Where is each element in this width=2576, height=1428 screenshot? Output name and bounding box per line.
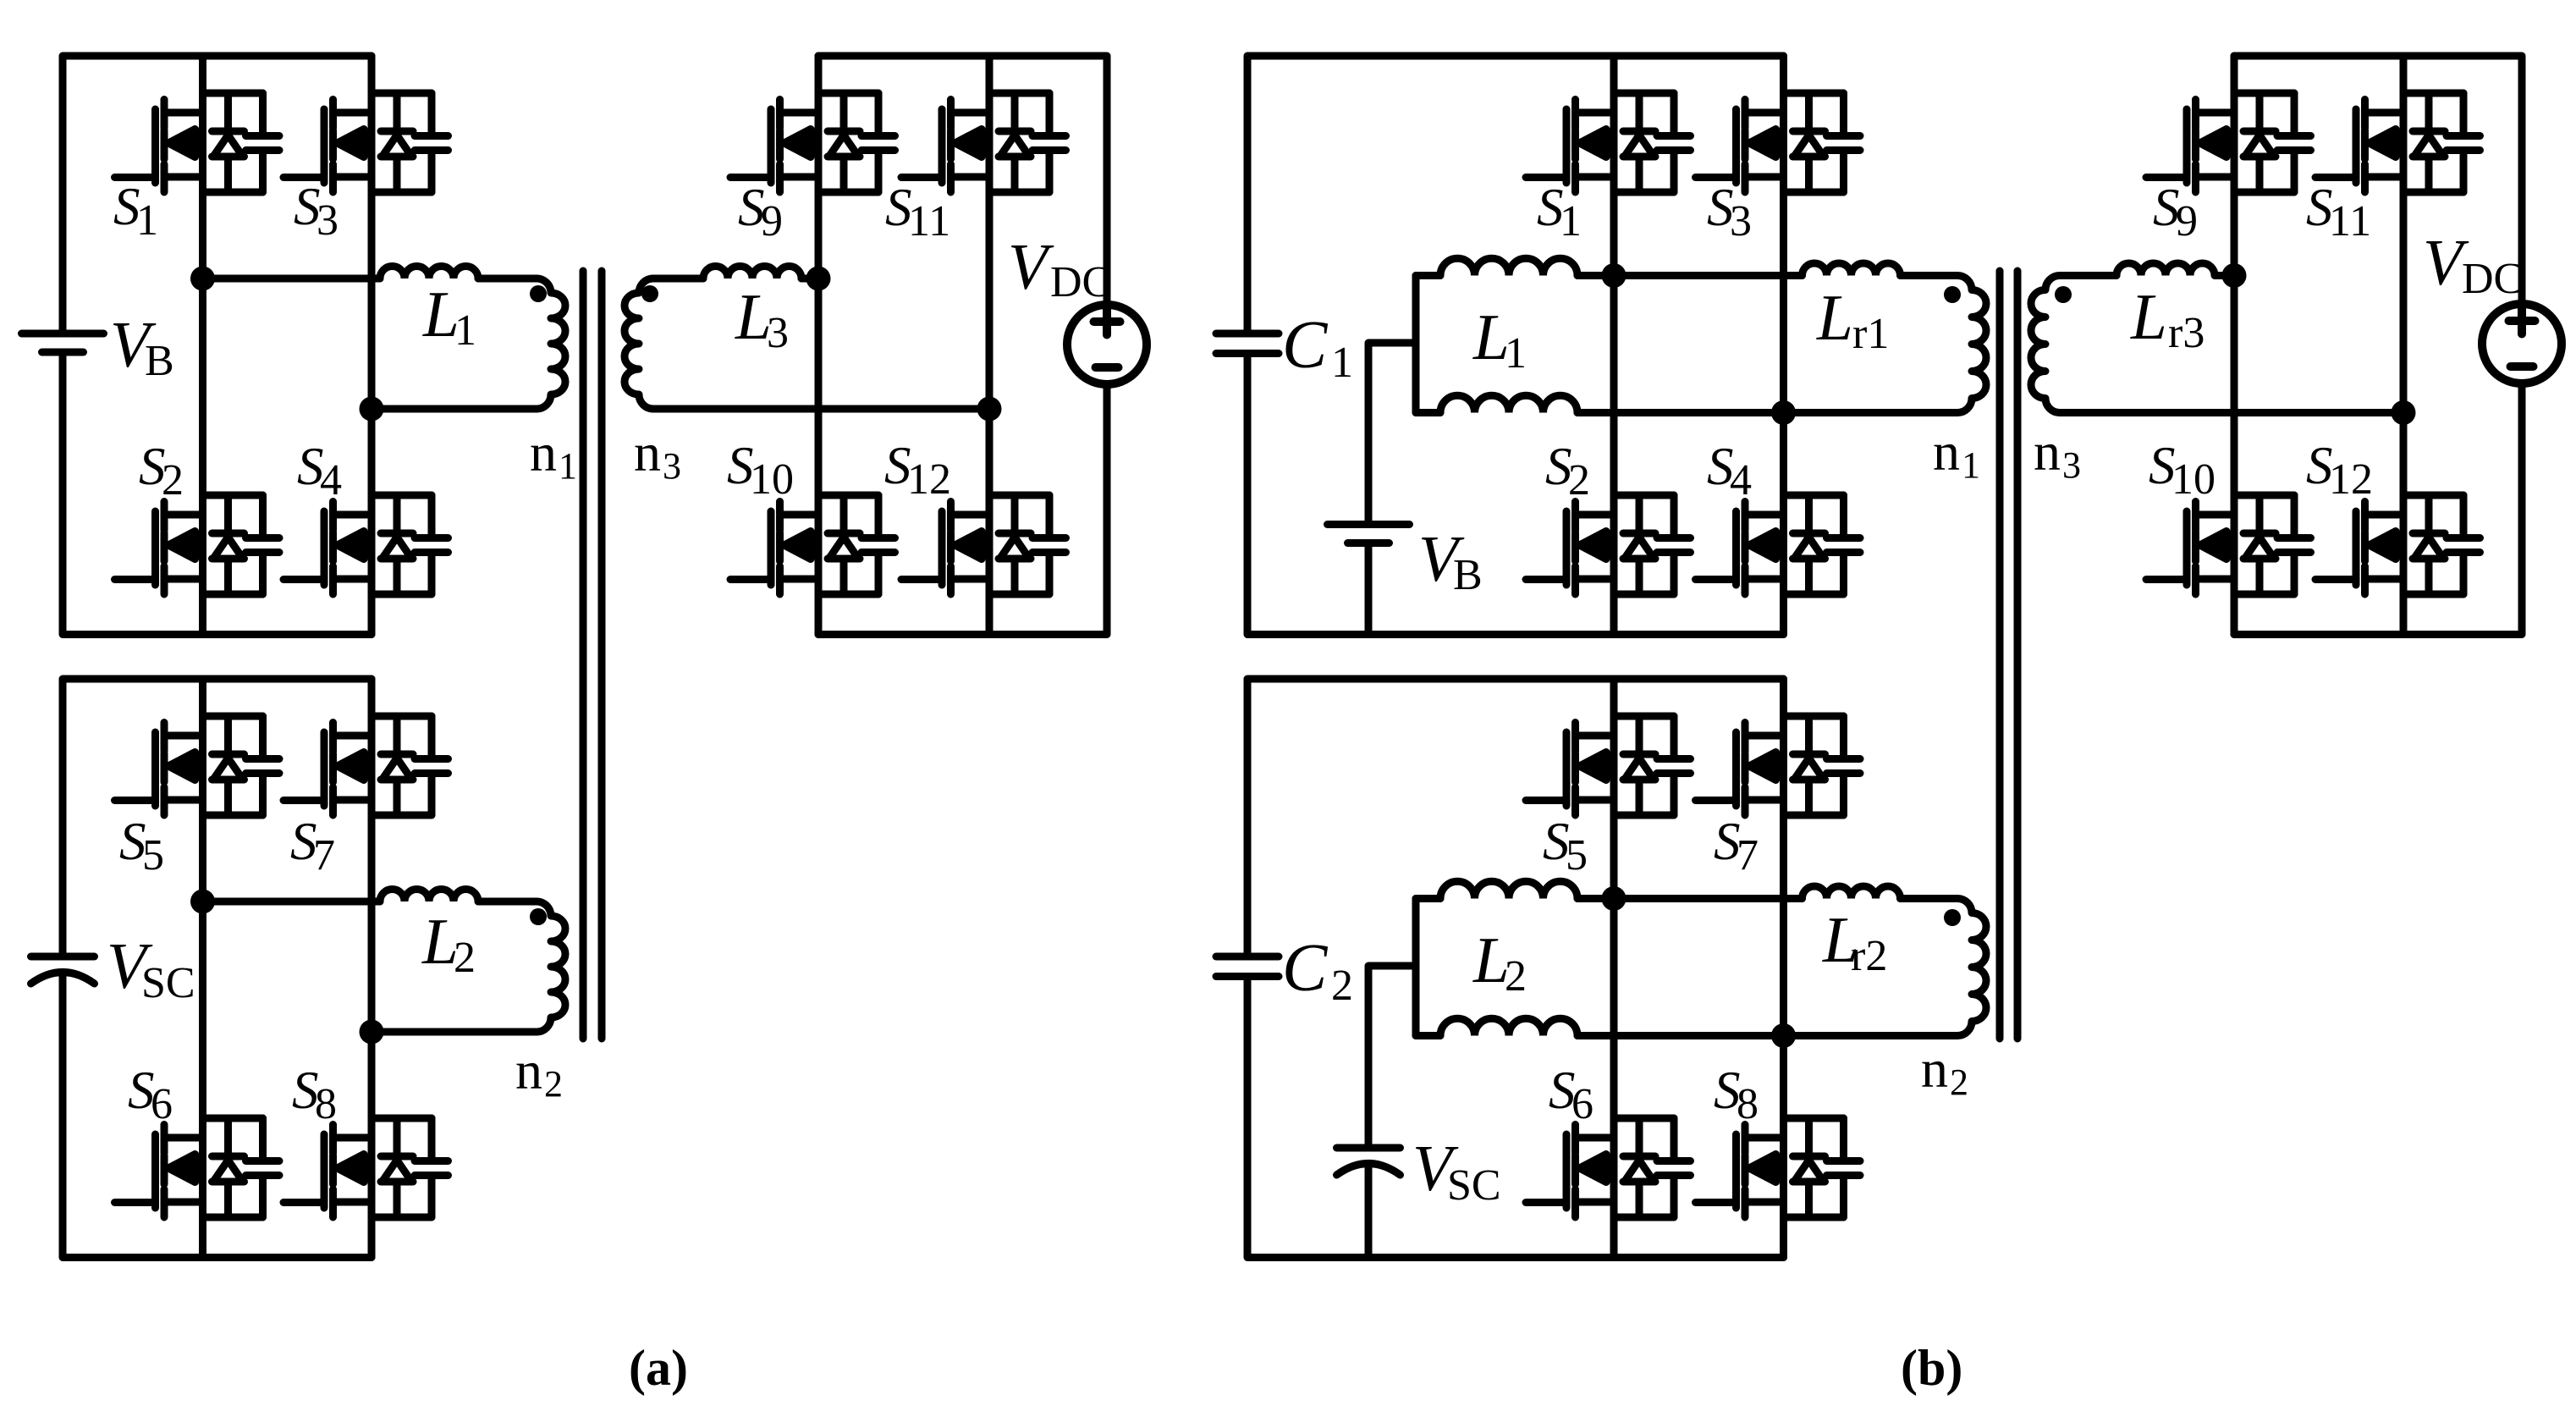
svg-text:SC: SC	[1447, 1161, 1501, 1210]
transformer winding n3	[625, 278, 653, 409]
wire: VB positive lead to L1 loop	[1368, 343, 1416, 521]
svg-text:6: 6	[151, 1080, 173, 1128]
battery VB	[22, 334, 104, 352]
wire: Lr3 to bridge B3 leg1 midpoint	[2215, 272, 2235, 279]
svg-text:9: 9	[2176, 197, 2198, 245]
svg-text:2: 2	[162, 456, 184, 504]
transformer winding n2	[537, 901, 565, 1032]
polarity dot of winding n1	[530, 285, 547, 302]
wire: bridge B1 top rail and C1 top lead	[1247, 56, 1784, 330]
wire: bridge A2 leg2 (S7/S8)	[368, 679, 376, 1258]
svg-text:3: 3	[767, 309, 789, 357]
inductor L2 of (b) bottom branch	[1440, 1018, 1577, 1035]
svg-text:11: 11	[2329, 197, 2371, 245]
polarity dot of winding n2 of (b)	[1944, 909, 1961, 926]
polarity dot of winding n1 of (b)	[1944, 286, 1961, 303]
inductor L1 of (b) bottom branch	[1440, 395, 1577, 412]
svg-text:B: B	[1453, 551, 1483, 599]
svg-text:n: n	[2034, 422, 2061, 482]
polarity dot of winding n2	[530, 908, 547, 925]
svg-text:n: n	[634, 422, 661, 482]
junction: bridge B2 leg1 midpoint node	[1602, 886, 1627, 911]
svg-text:B: B	[145, 337, 174, 385]
switch S2 of (b) (MOSFET with body diode and snubber capacitor)	[1526, 495, 1691, 594]
junction: bridge B1 leg2 midpoint node	[1771, 400, 1796, 425]
svg-text:6: 6	[1571, 1080, 1593, 1128]
wire: bridge B3 leg2 (S11/S12)	[2400, 56, 2408, 635]
svg-text:10: 10	[2171, 455, 2215, 504]
switch S8 of (b) (MOSFET with body diode and snubber capacitor)	[1696, 1118, 1861, 1217]
switch S11 (MOSFET with body diode and snubber capacitor)	[901, 93, 1066, 192]
svg-text:n: n	[530, 422, 557, 482]
wire: L2 to winding n2	[478, 898, 537, 906]
svg-text:DC: DC	[2462, 255, 2523, 303]
wire: L1 to winding n1	[478, 275, 537, 283]
wire: bridge A2 top rail and VSC positive lead	[63, 679, 372, 953]
svg-text:5: 5	[1566, 831, 1588, 879]
DC source VDC	[1067, 305, 1147, 384]
wire: VB negative lead to bottom rail	[1365, 548, 1373, 635]
wire: winding n3 to Lr3	[2060, 272, 2116, 279]
polarity dot of winding n3 of (b)	[2055, 286, 2072, 303]
svg-text:n: n	[1933, 422, 1960, 482]
svg-text:7: 7	[313, 831, 335, 879]
wire: L2 bottom branch to leg2	[1577, 1032, 1784, 1039]
wire: L2 loop left side	[1412, 899, 1420, 1036]
wire: bridge B2 leg2 (S7/S8)	[1780, 679, 1787, 1258]
svg-text:1: 1	[454, 306, 476, 355]
svg-text:C: C	[1282, 931, 1329, 1006]
wire: VSC positive lead to L2 loop	[1368, 966, 1416, 1144]
svg-text:C: C	[1282, 308, 1329, 383]
switch S12 (MOSFET with body diode and snubber capacitor)	[901, 495, 1066, 594]
svg-text:4: 4	[320, 456, 342, 504]
wire: bridge A1 top rail and VB positive lead	[63, 56, 372, 330]
wire: VSC negative lead to bottom rail	[1365, 1167, 1373, 1258]
battery VB of (b)	[1328, 525, 1410, 543]
inductor L1 of (b) top branch	[1440, 258, 1577, 275]
switch S4 (MOSFET with body diode and snubber capacitor)	[283, 495, 449, 594]
svg-text:2: 2	[1568, 456, 1590, 504]
svg-text:12: 12	[2329, 455, 2373, 504]
svg-text:2: 2	[1331, 962, 1353, 1010]
wire: VDC negative lead and bridge B3 bottom rail	[2234, 383, 2522, 635]
junction: bridge A2 leg2 midpoint node	[360, 1020, 384, 1045]
wire: bridge B3 leg1 (S9/S10)	[2231, 56, 2238, 635]
wire: L1 bottom branch to leg2	[1577, 409, 1784, 416]
svg-text:1: 1	[1962, 444, 1980, 486]
capacitor VSC (supercapacitor)	[31, 957, 95, 984]
svg-text:3: 3	[1730, 197, 1752, 245]
svg-text:n: n	[1921, 1039, 1948, 1099]
capacitor C1	[1216, 334, 1279, 354]
svg-text:7: 7	[1737, 831, 1759, 879]
transformer core (part b)	[2000, 271, 2017, 1039]
svg-text:9: 9	[761, 197, 783, 245]
svg-text:1: 1	[1505, 329, 1527, 378]
wire: bridge B1 leg2 (S3/S4)	[1780, 56, 1787, 635]
wire: loop top-left to L2	[1416, 895, 1440, 902]
wire: bridge A1 leg2 (S3/S4)	[368, 56, 376, 635]
svg-text:(b): (b)	[1901, 1340, 1962, 1396]
capacitor C2	[1216, 957, 1279, 977]
wire: bridge A3 leg2 (S11/S12)	[986, 56, 994, 635]
inductor Lr1	[1803, 263, 1901, 276]
wire: Lr2 to winding n2 of (b)	[1901, 895, 1958, 902]
wire: C2 bottom lead and bridge B2 bottom rail	[1247, 981, 1784, 1258]
svg-text:L: L	[1816, 281, 1853, 354]
svg-text:1: 1	[559, 445, 577, 487]
wire: bridge A3 leg1 (S9/S10)	[815, 56, 823, 635]
switch S9 (MOSFET with body diode and snubber capacitor)	[730, 93, 895, 192]
wire: bridge A3 top rail and VDC positive lead	[818, 56, 1107, 305]
switch S7 (MOSFET with body diode and snubber capacitor)	[283, 716, 449, 815]
junction: bridge B1 leg1 midpoint node	[1602, 263, 1627, 288]
junction: bridge A3 leg2 midpoint node	[977, 397, 1002, 422]
svg-text:r1: r1	[1852, 310, 1889, 358]
wire: winding n3 return to bridge B3 leg2	[2060, 409, 2403, 416]
svg-text:SC: SC	[141, 959, 195, 1007]
switch S4 of (b) (MOSFET with body diode and snubber capacitor)	[1696, 495, 1861, 594]
svg-text:10: 10	[750, 455, 794, 504]
wire: VB negative lead and bridge A1 bottom rail	[63, 356, 372, 635]
inductor L3	[703, 267, 801, 279]
wire: L2 top branch to leg1 node and leg2	[1577, 895, 1803, 902]
transformer winding n3 of (b)	[2031, 276, 2060, 413]
junction: bridge A3 leg1 midpoint node	[806, 267, 831, 291]
wire: leg1 midpoint to L1	[203, 275, 381, 283]
svg-text:r3: r3	[2168, 309, 2204, 357]
wire: winding n3 return to bridge A3 leg2	[653, 405, 989, 413]
polarity dot of winding n3	[641, 285, 658, 302]
inductor L1	[380, 267, 478, 279]
wire: winding n1 return to leg2	[372, 405, 537, 413]
svg-text:DC: DC	[1050, 258, 1111, 306]
wire: loop bottom-left to L1 bottom branch	[1416, 409, 1440, 416]
svg-text:12: 12	[907, 455, 951, 504]
svg-text:L: L	[2130, 280, 2167, 353]
svg-text:5: 5	[142, 831, 164, 879]
switch S9 of (b) (MOSFET with body diode and snubber capacitor)	[2146, 93, 2311, 192]
wire: bridge B1 leg1 (S1/S2)	[1610, 56, 1618, 635]
wire: C1 bottom lead and bridge B1 bottom rail	[1247, 358, 1784, 635]
svg-text:r2: r2	[1851, 932, 1887, 980]
wire: winding n1 return to leg2 node	[1784, 409, 1958, 416]
inductor Lr3	[2116, 263, 2215, 276]
switch S3 (MOSFET with body diode and snubber capacitor)	[283, 93, 449, 192]
junction: bridge B3 leg2 midpoint node	[2392, 400, 2416, 425]
wire: VDC negative lead and bridge A3 bottom rail	[818, 384, 1107, 635]
switch S5 (MOSFET with body diode and snubber capacitor)	[115, 716, 280, 815]
wire: winding n2 return to leg2 node	[1784, 1032, 1958, 1039]
wire: winding n3 to L3	[653, 275, 703, 283]
wire: L1 loop left side	[1412, 276, 1420, 413]
switch S1 (MOSFET with body diode and snubber capacitor)	[115, 93, 280, 192]
junction: bridge A1 leg2 midpoint node	[360, 397, 384, 422]
switch S3 of (b) (MOSFET with body diode and snubber capacitor)	[1696, 93, 1861, 192]
svg-text:8: 8	[1737, 1080, 1759, 1128]
wire: bridge B3 top rail and VDC positive lead	[2234, 56, 2522, 304]
switch S1 of (b) (MOSFET with body diode and snubber capacitor)	[1526, 93, 1691, 192]
transformer winding n2 of (b)	[1957, 899, 1986, 1036]
svg-text:n: n	[515, 1040, 542, 1100]
switch S6 (MOSFET with body diode and snubber capacitor)	[115, 1118, 280, 1217]
junction: bridge B3 leg1 midpoint node	[2222, 263, 2247, 288]
DC source VDC of (b)	[2482, 304, 2562, 383]
wire: VSC negative lead and bridge A2 bottom rail	[63, 975, 372, 1258]
wire: L3 to bridge A3 leg1 midpoint	[801, 275, 818, 283]
transformer core (part a)	[583, 271, 602, 1039]
inductor Lr2	[1803, 886, 1901, 899]
wire: L1 top branch to leg1 node and leg2	[1577, 272, 1803, 279]
switch S2 (MOSFET with body diode and snubber capacitor)	[115, 495, 280, 594]
switch S7 of (b) (MOSFET with body diode and snubber capacitor)	[1696, 716, 1861, 815]
wire: leg1 midpoint to L2	[203, 898, 381, 906]
svg-text:(a): (a)	[629, 1340, 688, 1396]
svg-text:1: 1	[1331, 339, 1353, 387]
svg-text:2: 2	[1950, 1061, 1968, 1103]
switch S11 of (b) (MOSFET with body diode and snubber capacitor)	[2315, 93, 2480, 192]
switch S8 (MOSFET with body diode and snubber capacitor)	[283, 1118, 449, 1217]
wire: loop top-left to L1	[1416, 272, 1440, 279]
svg-text:8: 8	[315, 1080, 337, 1128]
switch S10 of (b) (MOSFET with body diode and snubber capacitor)	[2146, 495, 2311, 594]
svg-text:2: 2	[1505, 952, 1527, 1001]
wire: winding n2 return to leg2	[372, 1028, 537, 1036]
junction: bridge A1 leg1 midpoint node	[190, 267, 215, 291]
switch S10 (MOSFET with body diode and snubber capacitor)	[730, 495, 895, 594]
wire: bridge B2 leg1 (S5/S6)	[1610, 679, 1618, 1258]
switch S12 of (b) (MOSFET with body diode and snubber capacitor)	[2315, 495, 2480, 594]
svg-text:4: 4	[1730, 456, 1752, 504]
wire: loop bottom-left to L2 bottom branch	[1416, 1032, 1440, 1039]
wire: bridge B2 top rail and C2 top lead	[1247, 679, 1784, 953]
capacitor VSC of (b) (supercapacitor)	[1337, 1148, 1401, 1175]
svg-text:2: 2	[544, 1063, 563, 1105]
svg-text:1: 1	[1560, 197, 1582, 245]
wire: bridge A1 leg1 (S1/S2)	[199, 56, 206, 635]
switch S6 of (b) (MOSFET with body diode and snubber capacitor)	[1526, 1118, 1691, 1217]
wire: Lr1 to winding n1 of (b)	[1901, 272, 1958, 279]
junction: bridge A2 leg1 midpoint node	[190, 890, 215, 914]
junction: bridge B2 leg2 midpoint node	[1771, 1023, 1796, 1048]
transformer winding n1	[537, 278, 565, 409]
svg-text:3: 3	[2062, 444, 2081, 486]
transformer winding n1 of (b)	[1957, 276, 1986, 413]
inductor L2	[380, 890, 478, 902]
svg-text:V: V	[1008, 230, 1054, 303]
svg-text:3: 3	[663, 445, 681, 487]
svg-text:3: 3	[316, 196, 339, 245]
svg-text:2: 2	[454, 934, 476, 982]
svg-text:1: 1	[136, 196, 158, 245]
inductor L2 of (b) top branch	[1440, 881, 1577, 898]
wire: bridge A2 leg1 (S5/S6)	[199, 679, 206, 1258]
svg-text:11: 11	[908, 197, 950, 245]
switch S5 of (b) (MOSFET with body diode and snubber capacitor)	[1526, 716, 1691, 815]
